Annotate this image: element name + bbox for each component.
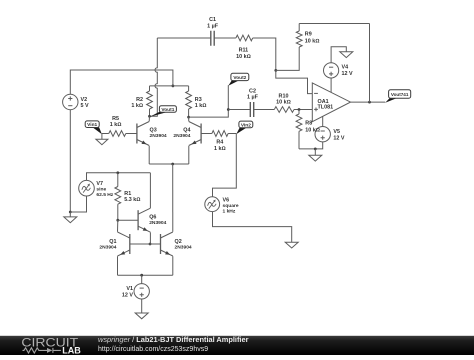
label C1 [209,17,216,23]
svg-text:2N3904: 2N3904 [99,245,116,251]
wire R5 to Q3 base [126,133,137,135]
resistor R2 [147,91,153,109]
svg-text:Q3: Q3 [150,127,157,133]
ground below V5 [309,149,322,161]
svg-text:1 kΩ: 1 kΩ [214,146,226,152]
svg-text:C2: C2 [249,88,256,94]
wire V5 top to op-amp V- [322,116,324,126]
wire C2 to R10 [254,109,275,111]
value C2 1uF [247,95,259,101]
flag Vin1 [85,121,102,134]
wire Q6 base [118,219,138,221]
wire V5 bottom [299,142,323,149]
svg-text:Vout1: Vout1 [161,107,174,113]
label OA1 [318,99,329,105]
flag Vout1 [150,106,177,117]
wire C1 feedback vertical to Vout1 with hops [150,38,158,116]
voltage source V2 [63,94,78,109]
svg-text:LAB: LAB [62,344,81,355]
svg-text:10 kΩ: 10 kΩ [236,54,251,60]
label V6 [223,197,230,203]
svg-text:1 kΩ: 1 kΩ [195,103,207,109]
node Vout2 flag junction [227,108,230,111]
wire V6 bottom to ground [213,212,292,242]
svg-text:1 µF: 1 µF [247,95,259,101]
value Q1 2N3904 [99,245,116,251]
transistor Q4 [189,122,201,146]
label Q4 [183,127,190,133]
wire Q4 base to R4 [201,133,212,135]
svg-text:TL081: TL081 [318,105,334,111]
wire V2 minus down left rail [69,110,71,212]
svg-text:sine: sine [96,187,106,193]
value R3 1k [195,103,207,109]
svg-text:R5: R5 [112,116,119,122]
wire output feedback up [369,24,371,103]
wire R11 to inverting node [253,38,276,70]
label Q3 [150,127,157,133]
svg-text:5 V: 5 V [81,103,89,109]
wire C1 to R11 [214,37,236,39]
node tail junction [171,163,174,166]
svg-text:V6: V6 [223,197,230,203]
label R11 [239,48,249,54]
wire Q4 collector [188,117,190,121]
ground below V6 branch [285,242,298,248]
value V4 12V [342,71,353,77]
svg-text:R8: R8 [305,121,312,127]
logo CIRCUIT [21,336,78,349]
wire Vin1 node to R5 [102,133,109,135]
svg-text:2N3904: 2N3904 [149,220,166,226]
svg-text:1 kΩ: 1 kΩ [110,122,122,128]
wire inverting node to op-amp minus input [276,70,313,93]
label R8 [305,121,312,127]
footer bar [0,336,474,355]
wire V4 to op-amp V+ [330,78,332,92]
svg-text:1 µF: 1 µF [207,23,219,29]
svg-text:5.3 kΩ: 5.3 kΩ [124,197,140,203]
svg-text:Q4: Q4 [183,127,190,133]
label R10 [279,93,289,99]
value V2 5V [81,103,89,109]
ground below Vin1 [96,134,108,145]
wire Q3 collector [148,116,150,121]
wire R4 to Vin2 node [228,133,236,135]
node V2-R2R3 junction [172,85,175,88]
svg-text:V5: V5 [333,129,340,135]
label V5 [333,129,340,135]
svg-text:10 kΩ: 10 kΩ [305,39,320,45]
resistor R8 [296,114,302,131]
svg-text:Q2: Q2 [175,239,182,245]
svg-text:62.5 Hz: 62.5 Hz [96,192,113,198]
op-amp OA1 TL081 [312,83,350,122]
capacitor C2 [250,102,253,117]
wire R9 bottom to inverting node [276,47,299,70]
wire Q6 emitter [149,232,151,244]
svg-text:2N3904: 2N3904 [175,245,192,251]
wire differential tail [149,163,189,165]
node output junction [368,101,371,104]
flag Vout741 [385,90,411,103]
value Q3 2N3904 [150,133,167,139]
value Q4 2N3904 [173,133,190,139]
label Q2 [175,239,182,245]
wire V7 top [87,173,151,181]
label Q6 [149,215,156,221]
svg-text:12 V: 12 V [342,71,353,77]
svg-text:Vout2: Vout2 [233,75,246,81]
voltage source V5 [315,127,330,142]
label R2 [136,97,143,103]
svg-text:2N3904: 2N3904 [150,133,167,139]
wire Q3 emitter [148,146,150,164]
node Vout1 junction [148,115,151,118]
svg-text:1 kHz: 1 kHz [223,209,236,215]
svg-text:12 V: 12 V [333,136,344,142]
wire V1 bottom [141,299,143,313]
resistor R5 [109,131,126,137]
label V2 [81,97,88,103]
wire R1 bottom lead [117,204,119,220]
flag Vin2 [236,121,252,134]
wire R3 top lead [188,86,190,91]
resistor R1 [115,187,121,205]
value R8 10k [305,128,320,134]
transistor Q3 [137,122,149,146]
value R4 1k [214,146,226,152]
svg-text:R1: R1 [124,191,131,197]
svg-text:V7: V7 [96,181,103,187]
wire Q2 emitter [172,256,174,275]
wire R1 top lead [117,173,119,187]
value R11 10k [236,54,251,60]
transistor Q1 [118,232,130,256]
value V6 square [223,203,239,209]
node V1 junction [140,274,143,277]
value R9 10k [305,39,320,45]
svg-text:V1: V1 [126,286,133,292]
label R5 [112,116,119,122]
footer author/title [98,335,249,344]
ground above V4 [340,52,353,58]
capacitor C1 [211,31,214,46]
ground left rail [64,212,77,223]
resistor R10 [274,107,294,113]
value V7 sine [96,187,106,193]
voltage source V7 sine [79,180,95,196]
label C2 [249,88,256,94]
node R1-Q6 base-Q1 collector junction [116,219,119,222]
svg-text:Vin2: Vin2 [241,122,251,128]
wire R9 top lead [298,24,300,32]
node Vout2 junction [187,116,190,119]
value Q6 2N3904 [149,220,166,226]
wire bottom rail [118,274,173,276]
wire Q1 collector [117,220,119,232]
value Q2 2N3904 [175,245,192,251]
value V7 freq [96,192,113,198]
node V2-V7-ground junction [69,211,72,214]
transistor Q6 [138,208,150,232]
label Q1 [109,239,116,245]
ground below V1 [135,313,148,319]
svg-text:1 kΩ: 1 kΩ [131,103,143,109]
svg-text:Vout741: Vout741 [391,92,409,97]
logo resistor-diode glyph [23,348,61,353]
wire R2 top to R3 top [150,85,189,87]
node V5 ground junction [314,148,317,151]
svg-text:R10: R10 [279,93,289,99]
svg-text:square: square [223,203,239,209]
svg-text:wspringer / Lab21-BJT Differen: wspringer / Lab21-BJT Differential Ampli… [98,335,249,344]
wire R3 bottom lead [188,109,190,117]
node R1 top junction [116,171,119,174]
label R3 [195,97,202,103]
resistor R11 [236,35,253,41]
svg-text:R2: R2 [136,97,143,103]
label V4 [342,65,349,71]
node inverting input junction [274,69,277,72]
wire Vout2 node to C2 row [189,85,229,117]
svg-text:R9: R9 [305,32,312,38]
resistor R3 [186,91,192,109]
wire Q6 collector [149,173,151,208]
svg-text:10 kΩ: 10 kΩ [305,128,320,134]
value C1 1uF [207,23,219,29]
wire R2 bottom lead [149,109,151,116]
voltage source V6 square [205,197,220,212]
wire Vin2 node to V6 [213,134,237,198]
wire V2 plus to R2-R3 rail jog [70,70,173,94]
voltage source V1 [134,284,149,299]
value V6 1kHz [223,209,236,215]
value R5 1k [110,122,122,128]
svg-text:V4: V4 [342,65,349,71]
label R9 [305,32,312,38]
node R8 junction [298,108,301,111]
transistor Q2 [161,232,173,256]
wire V1 top [141,275,143,283]
resistor R4 [212,131,228,137]
wire op-amp output [351,101,386,103]
svg-text:R4: R4 [216,140,223,146]
wire R9 top feedback [299,23,369,25]
resistor R9 [296,31,302,47]
wire R8 top lead [298,110,300,115]
svg-text:2N3904: 2N3904 [173,133,190,139]
wire V4 top to ground [331,47,346,63]
wire R2 top lead [149,86,151,91]
value V5 12V [333,136,344,142]
wire V7 bottom [70,196,86,212]
svg-text:10 kΩ: 10 kΩ [276,100,291,106]
voltage source V4 [324,63,339,78]
svg-text:R11: R11 [239,48,249,54]
svg-text:C1: C1 [209,17,216,23]
footer url [98,346,208,353]
svg-text:http://circuitlab.com/czs253sz: http://circuitlab.com/czs253sz9hvs9 [98,346,208,353]
wire Vout2 node to C2 [228,109,250,111]
label V1 [126,286,133,292]
node Q1-Q2 base junction [149,243,152,246]
value R10 10k [276,100,291,106]
wire R10 to op-amp plus input [294,109,312,111]
value V1 12V [122,292,133,298]
wire Q1-Q2 bases [130,243,161,245]
wire R8 bottom [298,131,300,149]
svg-text:Q6: Q6 [149,215,156,221]
wire Q2 collector to tail [172,164,174,232]
label R4 [216,140,223,146]
wire Q4 emitter [188,146,190,164]
value OA1 TL081 [318,105,334,111]
svg-text:R3: R3 [195,97,202,103]
flag Vout2 [228,73,248,86]
svg-text:12 V: 12 V [122,292,133,298]
logo LAB [62,344,81,355]
svg-text:Vin1: Vin1 [87,122,97,128]
svg-text:Q1: Q1 [109,239,116,245]
value R2 1k [131,103,143,109]
wire Q1 emitter [117,256,119,275]
value R1 5.3k [124,197,140,203]
wire C1 left [157,37,211,39]
label V7 [96,181,103,187]
label R1 [124,191,131,197]
